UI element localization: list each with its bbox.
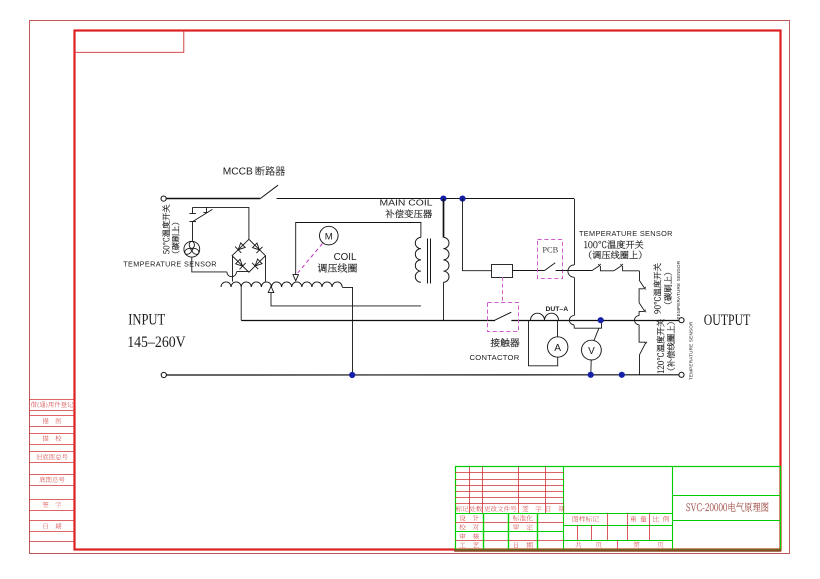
label 审定 [513, 524, 533, 530]
wire wiper to transformer primary bottom [271, 293, 421, 306]
transformer secondary [443, 237, 449, 282]
bottom rail N [166, 374, 679, 376]
switch contactor blade [495, 318, 511, 322]
svg-text:DUT–A: DUT–A [545, 306, 568, 313]
diode bridge D3 [235, 258, 246, 269]
wire relay branch drop [463, 199, 492, 271]
bridge rectifier diamond [232, 239, 265, 272]
title block staff rows [455, 522, 564, 524]
wire variac right end down to N rail [352, 287, 354, 375]
junction variac return [349, 372, 355, 378]
label 更改文件号 [484, 506, 516, 512]
input terminal L [161, 196, 166, 201]
hop over output rail [569, 316, 574, 325]
left strip label 借(通)用件登记 [31, 402, 73, 409]
svg-text:OUTPUT: OUTPUT [704, 312, 751, 329]
title block bottom brown line [454, 549, 781, 552]
label 标记 [456, 506, 469, 512]
revision table red lines [455, 472, 564, 474]
wire MCCB to transformer node [277, 198, 574, 200]
label 工艺 [459, 542, 479, 548]
wire secondary bottom to rail [443, 282, 445, 320]
wire voltmeter bottom [590, 360, 592, 375]
temperature sensor fan [184, 241, 200, 257]
label 120C switch [657, 319, 665, 373]
contactor dashed box [488, 303, 519, 332]
variac baseline extension [342, 287, 353, 289]
hop over 100C wire [568, 265, 574, 277]
svg-text:COIL: COIL [334, 252, 357, 263]
label 审核 [459, 533, 479, 539]
wiper brush arrow [268, 286, 274, 292]
motor drive dashed link [298, 244, 323, 273]
PCB dashed box [538, 240, 563, 279]
breaker MCCB blade [260, 185, 278, 198]
switch 120C vertical [639, 325, 646, 342]
title area rows [673, 495, 781, 497]
junction voltmeter return [588, 372, 594, 378]
wire hop over bridge-coil wire [227, 272, 237, 277]
switch 90C blade 2 [639, 303, 644, 311]
wire bridge left to variac [232, 256, 234, 282]
inner border frame [75, 31, 781, 550]
label 第页 [634, 542, 664, 548]
transformer core [427, 239, 429, 284]
svg-text:TEMPERATURE SENSOR: TEMPERATURE SENSOR [123, 260, 217, 269]
label 日期2 [514, 542, 533, 548]
output terminal L [679, 318, 684, 323]
revision header row [455, 513, 564, 515]
wire voltmeter top slant [594, 328, 599, 341]
variac winding COIL [221, 282, 342, 287]
label 图样标记 [573, 516, 599, 522]
junction relay branch [459, 196, 465, 202]
transformer MAIN COIL primary [415, 237, 421, 282]
label 重量 [630, 516, 646, 522]
CT secondary loop [529, 320, 558, 366]
title block outer green frame [456, 467, 781, 550]
diode bridge D4 [252, 258, 263, 269]
label 90C switch [653, 263, 661, 313]
input terminal N [161, 372, 166, 377]
svg-text:TEMPERATURE SENSOR: TEMPERATURE SENSOR [579, 229, 673, 238]
svg-text:TEMPERATURE SENSOR: TEMPERATURE SENSOR [676, 260, 681, 319]
wire ammeter top [557, 320, 559, 337]
branch wire to 50C switch and bridge [193, 207, 249, 239]
switch 90C blade 1 [639, 271, 641, 280]
svg-text:CONTACTOR: CONTACTOR [469, 353, 519, 362]
switch PCB relay contact [544, 263, 555, 271]
wire secondary top bold [443, 199, 445, 238]
wire bridge right to variac [265, 256, 267, 282]
label 标准化 [513, 515, 533, 521]
svg-text:INPUT: INPUT [128, 312, 165, 329]
svg-text:V: V [588, 346, 595, 357]
motor M [320, 226, 339, 245]
diode bridge D1 [235, 242, 246, 253]
variac tap to contactor rail [240, 287, 242, 320]
junction transformer secondary top [440, 196, 446, 202]
stamp area red dividers [607, 513, 609, 525]
drawing title SVC-20000 [686, 502, 768, 512]
svg-text:MCCB: MCCB [223, 167, 253, 178]
svg-text:M: M [325, 231, 333, 242]
wire relay to PCB switch [512, 270, 544, 272]
wire sensor to bridge bottom [192, 257, 227, 272]
svg-text:PCB: PCB [542, 246, 558, 255]
left strip label 签字 [43, 502, 62, 508]
switch 100C blade 1 [592, 266, 600, 271]
label 比例 [653, 516, 669, 522]
svg-text:145–260V: 145–260V [127, 334, 186, 351]
current transformer humps [531, 313, 559, 320]
label 校对 [459, 524, 479, 530]
top-left frame box [75, 30, 184, 52]
label 签字 [522, 506, 541, 512]
voltmeter V [582, 340, 602, 360]
label 50C switch [162, 205, 170, 254]
switch 100C blade 2 [614, 266, 622, 271]
hop over output rail right branch [635, 316, 640, 325]
output rail [241, 320, 679, 322]
wire L drop from top right [574, 199, 576, 265]
left strip label 底图总号 [40, 477, 65, 483]
left strip label 描校 [43, 435, 62, 441]
stamp area rows [564, 513, 673, 515]
svg-text:TEMPERATURE SENSOR: TEMPERATURE SENSOR [689, 321, 694, 380]
label contactor [491, 338, 520, 347]
junction node [619, 372, 625, 378]
relay to contactor dashed link [502, 277, 504, 303]
label 设计 [459, 515, 479, 521]
label 处数 [470, 506, 483, 512]
label 日期 [546, 506, 564, 512]
motor tap arrow and top link [293, 275, 299, 281]
label 共页 [575, 542, 602, 548]
relay coil box [492, 265, 513, 278]
junction voltmeter tap [598, 317, 604, 323]
output terminal N [679, 372, 684, 377]
left strip label 旧底图总号 [37, 454, 68, 460]
svg-text:MAIN COIL: MAIN COIL [380, 197, 433, 207]
wire to rail junction [574, 320, 602, 328]
wire input L to MCCB [166, 198, 260, 200]
svg-text:A: A [554, 343, 561, 354]
left margin strip cells [29, 399, 74, 401]
left strip label 描图 [43, 418, 61, 424]
diode bridge D2 [252, 242, 263, 253]
ammeter A [548, 337, 568, 357]
title block section dividers [563, 467, 565, 550]
switch 50C thermal [192, 207, 194, 213]
left strip label 日期 [44, 523, 62, 529]
